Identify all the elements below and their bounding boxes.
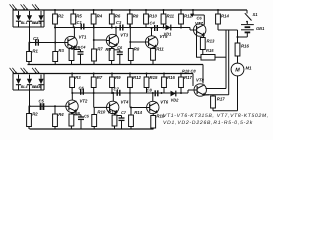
svg-text:VD2: VD2 — [171, 98, 180, 103]
resistor R3 — [53, 24, 65, 65]
dot R15c — [180, 73, 182, 75]
resistor R5e — [69, 45, 81, 65]
wire VT4 emitter bend — [115, 113, 118, 115]
svg-text:R15: R15 — [150, 75, 158, 80]
capacitor C3 — [116, 20, 123, 31]
svg-text:VT4: VT4 — [121, 99, 129, 104]
svg-text:C5: C5 — [39, 98, 45, 103]
resistor R9c — [110, 74, 122, 94]
svg-text:R13: R13 — [207, 39, 215, 44]
dot R2 — [54, 9, 56, 11]
wire vertical x226 — [225, 30, 227, 89]
svg-text:C3: C3 — [116, 20, 122, 25]
resistor R9e — [105, 47, 114, 65]
wire VT5 collector — [151, 28, 153, 36]
capacitor C6b2 — [117, 45, 123, 64]
resistor R16e — [151, 113, 165, 129]
transistor VT4 — [107, 99, 129, 113]
dot coupling right — [161, 92, 163, 94]
svg-text:C6: C6 — [79, 85, 85, 90]
diode VD2 — [171, 91, 180, 103]
resistor R12b — [128, 74, 142, 94]
svg-text:R14: R14 — [134, 110, 142, 115]
wire drop to VT4 base — [93, 93, 95, 107]
capacitor C7c — [119, 110, 127, 129]
wire battery to R16 — [246, 32, 248, 37]
resistor R10 — [144, 10, 158, 28]
svg-text:R14: R14 — [221, 14, 229, 19]
wire VT1 collector — [73, 28, 75, 38]
resistor R11 — [161, 10, 175, 28]
wire drop to VT3 base — [93, 24, 95, 49]
dot R9c — [111, 73, 113, 75]
resistor R16 — [235, 37, 249, 63]
svg-text:R10: R10 — [97, 110, 105, 115]
resistor R2 — [53, 10, 65, 28]
capacitor C8 — [147, 87, 158, 96]
dot R7c — [93, 73, 95, 75]
svg-text:R3: R3 — [58, 48, 64, 53]
svg-text:R9: R9 — [115, 75, 121, 80]
svg-text:VT7: VT7 — [195, 21, 203, 26]
wire VT2 emitter bend — [71, 111, 76, 113]
svg-text:R3: R3 — [75, 75, 81, 80]
dot R12 — [180, 9, 182, 11]
wire bottom coupling to VT8 base — [181, 92, 188, 94]
svg-text:VT1: VT1 — [79, 35, 87, 40]
transistor VT3 — [106, 33, 128, 47]
wire top supply rail — [13, 9, 247, 11]
resistor R4 — [91, 10, 103, 28]
svg-text:VT1-VT6-KT315B, VT7,VT8-KT502M: VT1-VT6-KT315B, VT7,VT8-KT502M, — [163, 113, 269, 119]
svg-text:R4: R4 — [58, 112, 64, 117]
svg-text:VT5: VT5 — [160, 34, 168, 39]
svg-text:R2: R2 — [58, 14, 64, 19]
dot R4b — [54, 105, 56, 107]
resistor R8 — [127, 10, 139, 28]
svg-text:VT8: VT8 — [196, 78, 204, 83]
diode VD1 — [164, 25, 173, 37]
dot VD1 right — [163, 27, 165, 29]
dot R14c — [163, 73, 165, 75]
wire upper mid rail drop — [202, 65, 204, 84]
capacitor C4 — [150, 21, 158, 32]
svg-text:C4: C4 — [150, 21, 156, 26]
resistor R4b — [53, 106, 65, 129]
svg-text:R18: R18 — [182, 69, 190, 74]
dot VT6 bias — [130, 107, 132, 109]
resistor R9b — [128, 47, 140, 65]
resistor R12 — [179, 10, 193, 28]
diode mark at VT7 rail tap — [190, 14, 194, 18]
resistor R13c — [144, 74, 158, 94]
svg-text:M1: M1 — [246, 66, 253, 71]
resistor R2b — [27, 106, 39, 129]
svg-text:R7: R7 — [97, 75, 103, 80]
svg-text:C4: C4 — [81, 45, 87, 50]
photodiode BL6 — [32, 68, 44, 90]
wire M1 top — [237, 56, 239, 63]
svg-text:R8: R8 — [134, 47, 140, 52]
resistor R6 — [109, 10, 121, 28]
svg-text:R17: R17 — [217, 97, 225, 102]
svg-text:C2: C2 — [33, 36, 39, 41]
dot R10 — [145, 9, 147, 11]
capacitor C5c — [78, 114, 90, 130]
wire lower mid rail drop — [192, 74, 194, 87]
wire VT1 emitter bend — [72, 48, 76, 50]
wire R14 node L — [218, 29, 238, 31]
resistor R14c — [162, 74, 176, 94]
wire VT3 emitter bend — [112, 45, 117, 48]
wire top coupling to VT7 base — [189, 28, 191, 31]
wire drop to VT6 base — [129, 93, 131, 108]
wire VT7 base drop — [196, 34, 198, 57]
svg-text:R10: R10 — [149, 14, 157, 19]
resistor R11b — [108, 110, 117, 130]
capacitor C2 — [33, 36, 39, 46]
capacitor C1 — [77, 20, 84, 30]
svg-text:R6: R6 — [115, 14, 121, 19]
resistor R17o — [211, 95, 226, 111]
svg-text:R11: R11 — [167, 14, 175, 19]
photodiode BL2 — [21, 4, 39, 27]
svg-text:VT2: VT2 — [80, 98, 88, 103]
resistor R14b — [129, 108, 143, 130]
svg-text:S1: S1 — [253, 12, 259, 17]
transistor VT6 — [147, 100, 169, 114]
wire emitter to cap — [74, 49, 81, 51]
svg-text:R2: R2 — [32, 112, 38, 117]
svg-text:C7: C7 — [114, 86, 120, 91]
svg-text:R16: R16 — [167, 75, 175, 80]
wire VT8 line B — [205, 94, 229, 96]
wire emitter2 to cap — [114, 49, 120, 51]
resistor R6e — [69, 111, 81, 129]
svg-text:VT3: VT3 — [120, 33, 128, 38]
motor M1 — [231, 63, 244, 76]
svg-text:C6: C6 — [197, 16, 203, 21]
resistor R11e — [151, 47, 165, 65]
transistor VT5 — [146, 34, 168, 48]
photocell box B1 outline — [12, 10, 14, 27]
capacitor C6b — [79, 85, 85, 95]
dot R3 base — [54, 42, 56, 44]
capacitor C5 — [40, 103, 42, 110]
wire vertical x228 — [228, 30, 230, 95]
photodiode BL3 — [32, 4, 44, 27]
dot R13c — [146, 73, 148, 75]
svg-text:R1: R1 — [32, 49, 38, 54]
photodiode BL4 — [10, 68, 28, 90]
wire VT8 emitter down — [205, 94, 209, 96]
photodiode BL5 — [21, 68, 40, 90]
wire bottom coupling line — [72, 92, 181, 94]
transistor VT7 — [194, 21, 206, 36]
resistor R7c — [91, 74, 103, 94]
svg-text:R5: R5 — [76, 14, 82, 19]
resistor R15c — [179, 74, 193, 94]
resistor R14 — [216, 10, 230, 30]
wire mid rail upper — [28, 64, 204, 66]
resistor R1 — [27, 43, 39, 65]
wire mid rail lower — [13, 73, 193, 75]
svg-text:GB1: GB1 — [256, 26, 265, 31]
svg-text:C8: C8 — [191, 69, 197, 74]
wire drop to VT5 base — [129, 24, 131, 49]
resistor R10b — [92, 107, 106, 129]
svg-text:BL3: BL3 — [34, 21, 41, 25]
svg-text:M: M — [235, 68, 240, 74]
wire VT8 emitter return — [213, 110, 238, 112]
svg-text:C7: C7 — [121, 110, 127, 115]
svg-text:R4: R4 — [97, 14, 103, 19]
svg-text:R16: R16 — [241, 44, 249, 49]
wire bottom rail — [30, 128, 154, 130]
wire top coupling line — [55, 27, 190, 29]
resistor R7b — [92, 47, 104, 65]
svg-text:C5: C5 — [84, 114, 90, 119]
dot R14 — [217, 9, 219, 11]
svg-text:R9: R9 — [105, 47, 111, 52]
svg-text:VT6: VT6 — [160, 100, 168, 105]
transistor VT1 — [65, 35, 87, 49]
wire VT2 collector — [71, 93, 73, 100]
dot R2-line — [54, 27, 56, 29]
svg-text:VD1,VD2-D226B,R1-R5-0,5-2k: VD1,VD2-D226B,R1-R5-0,5-2k — [163, 120, 253, 126]
wire base line VT1 — [30, 42, 65, 44]
wire VT6 collector — [152, 93, 154, 101]
transistor VT8 — [194, 78, 206, 97]
dot R4 — [93, 9, 95, 11]
switch S1 — [246, 10, 248, 14]
photocell box B2 outline — [12, 74, 14, 91]
dot R11 — [163, 9, 165, 11]
battery GB1 — [246, 22, 248, 24]
svg-text:R12: R12 — [133, 75, 141, 80]
svg-text:R8: R8 — [133, 14, 139, 19]
wire M1 bottom — [237, 76, 239, 111]
svg-text:C8: C8 — [147, 87, 153, 92]
transistor VT2 — [66, 98, 88, 112]
wire emitter3 to cap — [74, 114, 81, 116]
wire photo node down — [29, 27, 31, 52]
svg-text:BL1: BL1 — [21, 21, 28, 25]
resistor R13 — [200, 38, 215, 55]
wire VT7 collector L to rail — [192, 10, 194, 15]
svg-text:R7: R7 — [97, 47, 103, 52]
wire VT7 emitter down — [203, 35, 205, 37]
photodiode BL1 — [10, 4, 28, 27]
dot R12b — [129, 73, 131, 75]
resistor R5 — [71, 10, 83, 28]
svg-text:R11: R11 — [156, 47, 164, 52]
dot R3b — [71, 73, 73, 75]
wire VT8 collector line A — [206, 88, 227, 90]
svg-text:R17: R17 — [184, 75, 192, 80]
wire VT4 collector — [112, 93, 114, 101]
dot R6 — [111, 9, 113, 11]
resistor R3b — [70, 74, 82, 94]
capacitor C4b — [78, 45, 87, 65]
dot R8 — [129, 9, 131, 11]
wire photo node 2 down — [29, 90, 31, 114]
svg-text:BL4: BL4 — [21, 85, 28, 89]
svg-text:C1: C1 — [77, 20, 83, 25]
capacitor C7 — [114, 86, 120, 96]
svg-text:BL6: BL6 — [34, 85, 42, 89]
resistor R15 horizontal — [201, 55, 215, 61]
dot R5 — [72, 9, 74, 11]
wire base line VT2 — [30, 105, 67, 107]
wire emitter4 to cap — [117, 115, 122, 117]
wire VT3 collector — [115, 28, 117, 36]
svg-text:R15: R15 — [206, 48, 214, 53]
